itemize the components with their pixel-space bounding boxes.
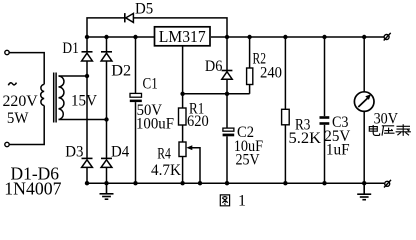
svg-text:D6: D6 <box>205 58 223 75</box>
wire ground rail bottom <box>87 182 384 184</box>
node ground rail at C2 <box>225 181 229 185</box>
wire voltmeter top lead <box>363 37 365 92</box>
wire AC top lead <box>9 53 44 85</box>
wire D2-D4 column middle <box>106 61 108 158</box>
terminal AC top <box>5 50 9 54</box>
wire ADJ pin vertical <box>182 46 184 108</box>
resistor R2 <box>247 68 253 85</box>
terminal AC bottom <box>5 142 9 146</box>
diode D2 <box>101 52 112 61</box>
node ground rail at D3 <box>85 181 89 185</box>
diode D6 <box>222 71 233 80</box>
capacitor C3 <box>320 116 330 125</box>
wire D3 column lower <box>86 167 88 183</box>
svg-text:30V: 30V <box>374 110 399 127</box>
wire D4 column lower <box>106 167 108 183</box>
wire C2 bottom lead <box>226 136 228 183</box>
svg-text:D5: D5 <box>135 1 153 18</box>
label AC tilde <box>8 83 16 86</box>
wire C2 top lead <box>226 94 228 128</box>
svg-text:100uF: 100uF <box>136 115 174 132</box>
ground symbol right <box>357 183 371 200</box>
wire R3 top lead <box>284 37 286 109</box>
transformer T1 core <box>54 73 56 123</box>
svg-text:4.7K: 4.7K <box>151 162 181 179</box>
wire C3 bottom lead <box>324 125 326 183</box>
node output rail at C3 <box>322 35 326 39</box>
wire secondary bottom lead <box>59 119 107 121</box>
resistor R4 potentiometer <box>179 142 186 157</box>
node output rail at R3 <box>283 35 287 39</box>
svg-text:5.2K: 5.2K <box>289 130 322 147</box>
diode D3 <box>82 158 93 167</box>
svg-text:LM317: LM317 <box>159 27 206 46</box>
svg-text:C1: C1 <box>143 75 158 92</box>
wire voltmeter bottom lead <box>363 111 365 183</box>
terminal output plus <box>384 33 391 41</box>
node ground rail at C1 <box>133 181 137 185</box>
wire output rail right <box>211 36 384 38</box>
resistor R3 <box>282 109 290 125</box>
wire secondary top lead <box>59 75 88 77</box>
wire D6 bottom lead <box>226 79 228 94</box>
node secondary top junction <box>85 74 89 78</box>
svg-text:D1: D1 <box>62 40 79 57</box>
node ground rail at R3 <box>283 181 287 185</box>
wire C3 top lead <box>324 37 326 116</box>
node input rail at C1 <box>133 35 137 39</box>
node ADJ net at D6 <box>225 92 229 96</box>
label figure caption tu <box>220 195 229 206</box>
node input rail at D1 <box>85 35 89 39</box>
wire D6 top lead <box>226 37 228 70</box>
wire input rail left <box>87 36 155 38</box>
svg-text:15V: 15V <box>71 92 97 109</box>
wire AC bottom lead <box>9 106 44 145</box>
node input rail at D2 <box>104 35 108 39</box>
wire R2 bottom lead <box>249 85 251 94</box>
svg-text:1: 1 <box>238 192 246 209</box>
wire R4 bottom lead <box>182 157 184 184</box>
node ADJ junction <box>180 92 184 96</box>
op-amp regulator U1 LM317 box <box>155 27 211 46</box>
node ground rail at C3 <box>322 181 326 185</box>
svg-text:1uF: 1uF <box>326 141 350 158</box>
ground symbol left <box>100 183 114 199</box>
node output rail at voltmeter <box>362 35 366 39</box>
node ground rail at R4 <box>180 181 184 185</box>
node ground rail at R4 wiper <box>198 181 202 185</box>
node ground rail at voltmeter <box>362 181 366 185</box>
svg-text:D3: D3 <box>65 144 83 161</box>
capacitor C2 <box>223 128 235 136</box>
node output rail at D5/D6 <box>225 35 229 39</box>
svg-text:5W: 5W <box>7 110 29 127</box>
svg-text:D2: D2 <box>111 63 131 80</box>
wire D2 column upper <box>106 37 108 52</box>
diode D1 <box>82 52 93 61</box>
svg-text:240: 240 <box>260 64 282 81</box>
wire R3 bottom lead <box>284 125 286 183</box>
diode D4 <box>101 158 112 167</box>
transformer T1 secondary winding <box>59 76 64 120</box>
capacitor C1 <box>130 93 142 102</box>
svg-text:25V: 25V <box>236 152 261 169</box>
wire D5 top loop right segment <box>133 18 227 37</box>
wire C1 bottom lead <box>135 102 137 183</box>
svg-text:1N4007: 1N4007 <box>4 179 61 199</box>
node output rail at R2 <box>247 35 251 39</box>
resistor R1 <box>179 108 187 125</box>
label voltmeter chinese dian-ya-biao <box>369 124 411 136</box>
node secondary bottom junction <box>104 117 108 121</box>
wire D1-D3 column middle <box>86 61 88 158</box>
transformer T1 primary winding <box>41 84 45 105</box>
diode D5 <box>125 13 134 22</box>
wire D1 column upper <box>86 37 88 52</box>
voltmeter PV <box>354 92 374 112</box>
wire D5 top loop left vertical <box>87 18 124 37</box>
wire R1 to R4 <box>182 125 184 142</box>
terminal output minus <box>384 180 391 188</box>
svg-text:R4: R4 <box>157 145 171 162</box>
node ground rail at D4 <box>104 181 108 185</box>
svg-text:D4: D4 <box>111 144 129 161</box>
wire C1 top lead <box>135 37 137 93</box>
wire R4 wiper <box>186 145 200 183</box>
wire ADJ net horizontal <box>183 93 250 95</box>
svg-text:620: 620 <box>187 113 209 130</box>
wire R2 top lead <box>249 37 251 68</box>
svg-text:220V: 220V <box>3 93 39 110</box>
